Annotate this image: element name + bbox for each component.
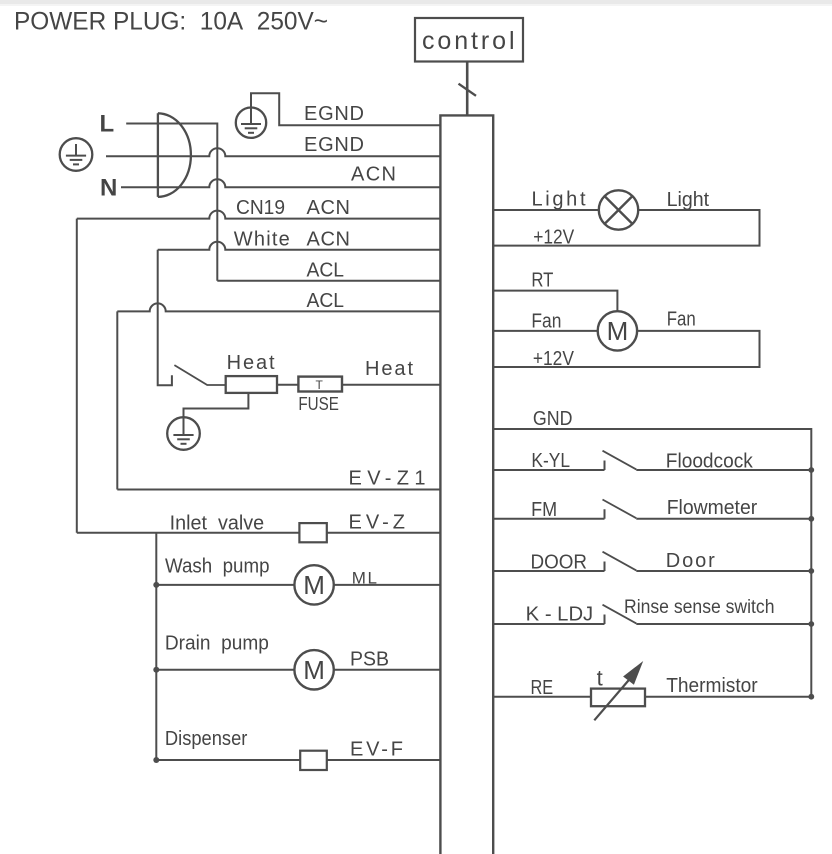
svg-text:Light: Light <box>667 189 710 211</box>
svg-text:K-YL: K-YL <box>531 450 570 472</box>
svg-text:K - LDJ: K - LDJ <box>526 604 594 626</box>
svg-text:FUSE: FUSE <box>298 393 339 414</box>
svg-text:Dispenser: Dispenser <box>165 728 248 750</box>
svg-text:Drain pump: Drain pump <box>165 633 269 655</box>
svg-text:EGND: EGND <box>304 134 364 156</box>
svg-text:POWER PLUG: 10A 250V~: POWER PLUG: 10A 250V~ <box>14 8 328 36</box>
svg-text:+12V: +12V <box>533 348 575 370</box>
svg-text:ACN: ACN <box>307 228 351 250</box>
svg-text:+12V: +12V <box>533 226 575 248</box>
svg-text:EV-F: EV-F <box>350 739 403 761</box>
svg-text:ACL: ACL <box>307 260 345 282</box>
svg-text:DOOR: DOOR <box>531 551 588 573</box>
svg-text:RE: RE <box>531 677 554 699</box>
svg-text:White: White <box>234 228 290 250</box>
svg-text:Floodcock: Floodcock <box>666 451 754 473</box>
svg-text:ACL: ACL <box>307 290 345 312</box>
svg-text:N: N <box>100 175 117 202</box>
svg-text:EV-Z1: EV-Z1 <box>349 468 426 490</box>
svg-text:Rinse sense switch: Rinse sense switch <box>624 597 775 618</box>
svg-text:PSB: PSB <box>350 649 389 671</box>
svg-text:GND: GND <box>533 408 573 430</box>
svg-text:Wash pump: Wash pump <box>165 556 270 578</box>
svg-text:Inlet valve: Inlet valve <box>170 513 265 535</box>
svg-text:RT: RT <box>531 269 553 291</box>
svg-text:FM: FM <box>531 499 557 521</box>
svg-text:CN19: CN19 <box>236 197 285 219</box>
svg-text:M: M <box>607 316 629 346</box>
svg-text:ACN: ACN <box>307 197 351 219</box>
svg-text:Fan: Fan <box>667 308 696 330</box>
svg-text:EGND: EGND <box>304 103 364 125</box>
svg-text:M: M <box>303 655 325 685</box>
svg-text:Door: Door <box>666 550 715 572</box>
svg-text:Thermistor: Thermistor <box>666 675 758 697</box>
svg-text:Fan: Fan <box>531 311 561 333</box>
svg-text:L: L <box>100 111 115 138</box>
svg-text:t: t <box>597 666 603 691</box>
svg-text:M: M <box>303 570 325 600</box>
svg-text:T: T <box>316 378 324 392</box>
svg-text:Flowmeter: Flowmeter <box>667 497 758 519</box>
svg-text:EV-Z: EV-Z <box>349 512 406 534</box>
svg-text:ML: ML <box>352 569 377 588</box>
svg-text:ACN: ACN <box>351 164 396 186</box>
